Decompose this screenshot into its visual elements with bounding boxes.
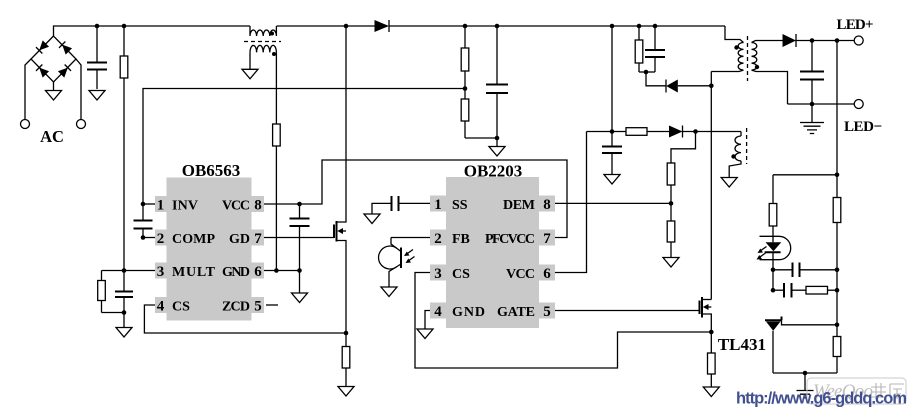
node feedback top — [835, 173, 840, 178]
capacitor C11 compensation — [784, 283, 792, 298]
node TL431 ref divider — [835, 323, 840, 328]
wire SS pin1 — [399, 202, 431, 204]
node output cap bottom — [810, 102, 815, 107]
capacitor C3 INV-COMP — [142, 204, 144, 238]
wire divider to cap bottom — [465, 137, 497, 139]
L1 aux polarity dot — [272, 52, 276, 56]
U3 LED triangle — [766, 242, 782, 251]
Q2 body arrow — [703, 304, 709, 310]
svg-text:FB: FB — [452, 232, 470, 247]
Q1 drain tap — [337, 26, 347, 222]
capacitor C6 soft-start — [392, 196, 399, 211]
wire T1 aux bottom lead — [729, 161, 741, 178]
wire TL431 anode — [772, 331, 774, 373]
node C4 top — [297, 202, 302, 207]
wire R14 to bottom — [836, 357, 838, 374]
transformer T1 aux winding — [735, 136, 741, 161]
svg-text:COMP: COMP — [172, 232, 215, 247]
node cap row1 right — [835, 268, 840, 273]
svg-text:MULT: MULT — [172, 265, 216, 280]
wire rail to T1 primary top — [725, 26, 744, 43]
U2 pin tab 5 — [539, 303, 555, 319]
ground under C7 — [604, 175, 620, 185]
wire C6 left to ground — [372, 203, 392, 214]
node bulk cap top — [495, 24, 500, 29]
U2 pin tab 7 — [539, 230, 555, 246]
controller U2 OB2203 body — [446, 177, 539, 328]
wire C11 to R12 — [792, 289, 807, 291]
svg-text:6: 6 — [543, 266, 551, 282]
node clamp primary — [709, 84, 714, 89]
wire output negative — [788, 103, 855, 105]
U2 pin tab 1 — [430, 196, 446, 212]
node VCC line feed — [610, 129, 615, 134]
svg-text:CS: CS — [452, 267, 470, 282]
wire GATE pin5 — [555, 310, 700, 312]
wire top rail right — [389, 25, 726, 27]
diode BR1-D1 — [36, 40, 49, 53]
node bulk cap bottom — [495, 136, 500, 141]
wire TL431 ref — [782, 320, 838, 325]
wire L1 aux right lead — [275, 52, 277, 124]
wire divider bottom — [102, 313, 125, 328]
U1 pin tab 7 — [252, 230, 265, 246]
wire R9 to ground — [670, 242, 672, 258]
resistor R4 Q1 sense — [345, 333, 347, 387]
ground under C5 — [489, 147, 505, 157]
svg-text:3: 3 — [157, 264, 165, 280]
T1 aux core — [746, 128, 748, 164]
svg-text:8: 8 — [543, 197, 551, 213]
wire T1 aux top lead — [740, 132, 742, 137]
resistor R9 DEM lower — [667, 221, 675, 242]
svg-text:5: 5 — [254, 299, 262, 315]
node feedback bottom earth — [803, 371, 808, 376]
resistor R6 lower divider — [464, 89, 466, 139]
resistor R11 opto series — [772, 175, 774, 204]
resistor R8 DEM upper — [667, 163, 675, 185]
ground under C2 — [116, 328, 132, 338]
optocoupler U3 phototransistor envelope — [379, 246, 397, 269]
U3 LED arrow 1 — [760, 247, 767, 252]
node Q2 source CS — [709, 330, 714, 335]
wire GND pin4 — [425, 311, 430, 330]
U2 pin tab 2 — [430, 230, 446, 246]
svg-text:AC: AC — [40, 127, 64, 146]
resistor R3 ZCD bleed — [273, 124, 281, 146]
wire top rail left — [54, 26, 251, 36]
capacitor C2 — [123, 271, 125, 313]
U3 collector lead — [391, 238, 401, 252]
inductor L1 aux winding — [250, 45, 276, 52]
node LED+ branch — [835, 38, 840, 43]
capacitor C4 VCC bypass — [299, 204, 301, 271]
wire MULT — [102, 270, 156, 272]
U1 pin tab 1 — [155, 196, 167, 212]
wire feedback top branch — [773, 174, 837, 176]
wire R11 to opto LED — [772, 226, 774, 242]
wire COMP stub — [143, 237, 155, 239]
resistor R13 divider upper — [833, 198, 841, 223]
bridge rectifier BR1 — [31, 36, 76, 82]
svg-text:7: 7 — [543, 231, 551, 247]
svg-text:OB6563: OB6563 — [182, 161, 241, 180]
wire ZCD no-connect dash — [266, 304, 278, 306]
diode BR1-D2 — [59, 41, 72, 54]
Q1 body arrow — [337, 228, 343, 234]
wire DEM pin8 — [555, 202, 671, 204]
svg-text:GND: GND — [452, 305, 485, 320]
wire D6 to aux winding — [683, 131, 742, 133]
wire LED+ down to feedback — [836, 41, 838, 198]
wire GD pin7 — [264, 237, 334, 239]
svg-text:1: 1 — [434, 197, 442, 213]
transistor Q1 gate bar — [333, 225, 335, 239]
L1 core — [244, 41, 281, 43]
svg-text:8: 8 — [254, 198, 262, 214]
svg-text:TL431: TL431 — [718, 335, 766, 354]
wire L1 aux left lead — [249, 52, 251, 69]
wire U1 GND pin6 — [264, 270, 301, 272]
svg-text:http://www.g6-gddq.com: http://www.g6-gddq.com — [736, 390, 907, 408]
U1 pin tab 2 — [155, 230, 167, 246]
wire DEM branch — [671, 132, 696, 164]
wire output positive — [796, 40, 854, 42]
svg-text:4: 4 — [434, 304, 442, 320]
resistor R15 Q2 sense — [710, 332, 712, 387]
T1 aux polarity dot — [731, 154, 735, 158]
node rail-R1 — [122, 24, 127, 29]
U1 pin tab 5 — [252, 297, 265, 313]
node MULT junction — [122, 268, 127, 273]
wire cap row1 right — [800, 269, 838, 271]
wire FB pin2 — [391, 237, 430, 239]
U3 base bar — [400, 248, 402, 269]
T1 core — [747, 36, 749, 81]
wire rail to VCC line — [611, 26, 613, 132]
capacitor C9 output — [811, 41, 813, 105]
svg-text:GND: GND — [222, 265, 250, 280]
TL431 body triangle — [766, 322, 781, 331]
wire primary bottom to Q2 drain — [710, 72, 712, 300]
wire INV sense line — [143, 89, 465, 205]
resistor R2 — [101, 271, 103, 313]
ground under bridge — [46, 82, 62, 100]
wire AC live — [25, 59, 31, 120]
node COMP — [141, 235, 146, 240]
wire clamp stem — [646, 72, 666, 86]
wire clamp to primary bottom — [678, 85, 712, 87]
LED+ terminal — [854, 36, 863, 45]
wire T1 primary bottom lead — [711, 70, 743, 71]
watermark box — [807, 378, 906, 404]
node output cap top — [810, 38, 815, 43]
resistor R10 snubber — [638, 26, 640, 72]
node VCC-DEM branch — [693, 129, 698, 134]
node RC row left — [771, 288, 776, 293]
svg-text:2: 2 — [157, 231, 165, 247]
wire R3 to GND row — [275, 146, 277, 271]
wire feedback bottom — [773, 372, 837, 374]
svg-text:SS: SS — [452, 198, 468, 213]
svg-text:5: 5 — [543, 304, 551, 320]
svg-text:3: 3 — [434, 266, 442, 282]
capacitor C8 snubber — [654, 26, 656, 72]
wire T1 secondary bottom lead — [752, 70, 788, 104]
ground under T1 aux — [721, 178, 737, 188]
node rail VCC feed — [610, 24, 615, 29]
node Q1 drain rail — [344, 24, 349, 29]
node Q1 source CS — [344, 331, 349, 336]
Q1 channel bar — [336, 221, 338, 242]
svg-text:GATE: GATE — [497, 305, 535, 320]
svg-text:VCC: VCC — [506, 267, 535, 282]
wire RC row left — [773, 289, 784, 291]
U3 LED cathode bar — [765, 251, 781, 253]
T1 secondary polarity dot — [755, 65, 759, 69]
U1 pin tab 8 — [252, 196, 265, 212]
ground under C6 — [364, 214, 380, 224]
capacitor C1 — [96, 26, 98, 89]
svg-text:1: 1 — [157, 198, 165, 214]
svg-text:LED+: LED+ — [837, 17, 874, 33]
Q2 source tap — [702, 314, 711, 332]
diode BR1-D4 — [58, 64, 71, 77]
ground under R15 — [703, 387, 719, 397]
node C4 bottom — [297, 268, 302, 273]
svg-text:DEM: DEM — [503, 198, 535, 213]
node R3-GND — [274, 268, 279, 273]
ground U2 GND — [417, 329, 433, 339]
node opto cathode cap — [771, 268, 776, 273]
U3 light arrow 1 — [406, 250, 413, 255]
svg-text:CS: CS — [172, 300, 190, 315]
ground under C1 — [89, 91, 105, 101]
earth ground output — [800, 104, 824, 134]
svg-text:7: 7 — [254, 231, 262, 247]
svg-text:PFCVCC: PFCVCC — [485, 232, 535, 247]
node rail-C1 — [95, 24, 100, 29]
ground under L1 aux — [242, 69, 258, 79]
watermark chinese glyphs — [871, 383, 904, 399]
diode D6 VCC — [669, 126, 683, 138]
U1 pin tab 6 — [252, 263, 265, 279]
diode D7 clamp — [665, 80, 667, 93]
node rail snubber R — [637, 24, 642, 29]
ground U1 GND — [292, 293, 308, 303]
svg-text:ZCD: ZCD — [222, 300, 250, 315]
svg-text:LED−: LED− — [844, 119, 882, 135]
L1 primary polarity dot — [270, 32, 274, 36]
op-amp U1 OB6563 body — [167, 178, 252, 321]
T1 primary polarity dot — [734, 45, 738, 49]
svg-text:6: 6 — [254, 264, 262, 280]
svg-text:VCC: VCC — [222, 199, 250, 214]
Q1 source tap — [337, 241, 347, 334]
U1 pin tab 4 — [155, 297, 167, 313]
wire AC neutral — [76, 59, 81, 120]
earth ground TL431 — [797, 373, 814, 398]
wire GND row to ground — [299, 271, 301, 294]
optocoupler U3 LED envelope — [760, 236, 791, 259]
transformer T1 primary winding — [738, 43, 743, 71]
wire R13 to divider mid — [836, 223, 838, 337]
ground under U3 emitter — [381, 287, 397, 297]
capacitor C7 VCC — [611, 132, 613, 175]
U2 pin tab 3 — [430, 265, 446, 281]
wire top rail mid — [277, 25, 375, 27]
transistor Q2 gate bar — [699, 301, 701, 315]
diode D5 boost — [375, 20, 390, 32]
resistor R14 divider lower — [833, 337, 841, 357]
diode BR1-D3 — [36, 64, 49, 77]
node rail snubber C — [653, 24, 658, 29]
node divider bottom — [122, 310, 127, 315]
node RC row right — [835, 288, 840, 293]
Q2 channel bar — [701, 297, 703, 318]
node INV — [141, 202, 146, 207]
LED- terminal — [854, 100, 863, 109]
U2 pin tab 6 — [539, 265, 555, 281]
node rail divider top — [463, 24, 468, 29]
U3 light arrow 2 — [408, 257, 415, 262]
wire CS pin4 — [144, 305, 346, 333]
wire R7 to D6 — [647, 131, 669, 133]
wire VCC pin6 — [555, 132, 587, 273]
resistor R5 upper divider — [464, 26, 466, 89]
wire cap row1 left — [773, 269, 793, 271]
wire snubber bottom — [639, 71, 655, 73]
svg-text:INV: INV — [172, 199, 198, 214]
wire INV stub — [143, 203, 155, 205]
Q2 drain tap — [702, 299, 711, 301]
wire VCC pin8 to PFCVCC — [264, 160, 567, 238]
svg-text:4: 4 — [157, 299, 165, 315]
wire R12 right — [828, 289, 838, 291]
node divider mid — [463, 86, 468, 91]
wire VCC line — [587, 131, 627, 133]
resistor R7 VCC series — [626, 128, 647, 136]
U3 emitter lead — [389, 264, 401, 287]
svg-text:OB2203: OB2203 — [464, 162, 523, 181]
diode D8 output — [783, 34, 797, 47]
U1 pin tab 3 — [155, 263, 167, 279]
wire R8 to DEM — [670, 185, 672, 221]
wire LED cathode down — [772, 252, 774, 290]
resistor R1 — [123, 26, 125, 271]
wire CS pin3 to Q2 source — [415, 273, 711, 369]
resistor R12 compensation — [806, 286, 828, 294]
AC terminal 2 — [77, 120, 86, 129]
node DEM junction — [669, 201, 674, 206]
svg-text:GD: GD — [229, 232, 250, 247]
svg-text:2: 2 — [434, 231, 442, 247]
capacitor C5 bulk — [496, 26, 498, 147]
AC terminal 1 — [21, 120, 30, 129]
transformer T1 secondary winding — [752, 43, 757, 71]
U2 pin tab 4 — [430, 303, 446, 319]
capacitor C10 feedback — [793, 263, 800, 278]
ground under R4 — [338, 387, 354, 397]
inductor L1 primary winding — [250, 26, 276, 36]
wire T1 secondary top lead — [752, 41, 783, 43]
node snubber to clamp — [644, 70, 649, 75]
ground under R9 — [663, 258, 679, 268]
shunt regulator TL431 cathode bar — [765, 317, 782, 321]
U3 LED arrow 2 — [759, 253, 766, 258]
U2 pin tab 8 — [539, 196, 555, 212]
